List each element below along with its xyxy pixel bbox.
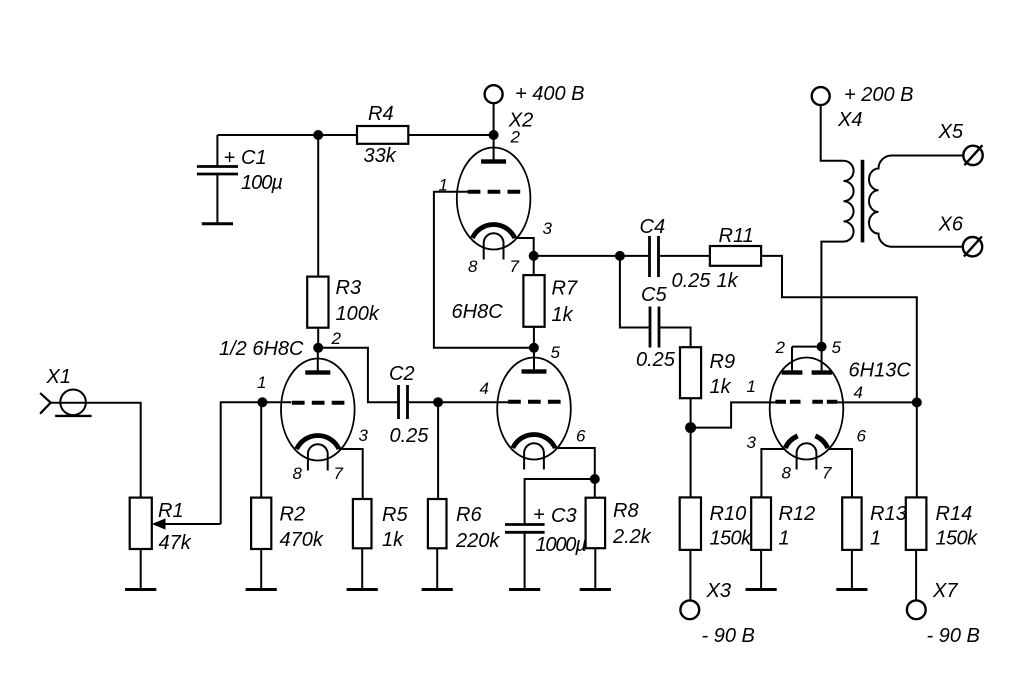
label + 400 B [515, 83, 585, 105]
wire primary bottom to V4 anodes [821, 242, 843, 347]
wire R8 to ground [594, 548, 596, 589]
svg-text:3: 3 [359, 426, 369, 445]
connector X4 terminal [812, 87, 830, 105]
svg-text:470k: 470k [280, 529, 324, 551]
label 6H13C [849, 360, 912, 382]
resistor R9 [680, 347, 701, 398]
label R4 [368, 103, 394, 125]
svg-text:6: 6 [857, 427, 867, 446]
svg-text:- 90 B: - 90 B [702, 625, 755, 647]
svg-text:R11: R11 [719, 225, 754, 247]
resistor R4 [357, 126, 408, 144]
pin 3 (V1) [359, 426, 369, 445]
wire X1 to R1 top [51, 403, 141, 498]
triode V3 anode lead [533, 348, 535, 371]
svg-text:2: 2 [331, 329, 342, 348]
pin 2 (tube V1) [331, 329, 342, 348]
transformer T1 secondary winding [869, 156, 892, 247]
pin 4 (V4) [854, 383, 863, 402]
label X4 [837, 109, 862, 131]
triode V4 envelope [770, 358, 844, 460]
label R5 [382, 504, 408, 526]
svg-text:X5: X5 [938, 121, 964, 143]
label - 90 B (X3) [702, 625, 755, 647]
node 1 junction [257, 397, 267, 407]
svg-text:R6: R6 [456, 504, 482, 526]
label R2 [280, 504, 306, 526]
wire V4 pin3 to R12 [761, 449, 785, 497]
wire R3 to node 2 [317, 328, 319, 348]
wire X2 stem [493, 103, 495, 135]
pin 5 (V3) [551, 343, 561, 362]
label 1/2 6H8C [219, 338, 304, 360]
svg-text:6H13C: 6H13C [849, 360, 912, 382]
wire X4 to primary [821, 105, 844, 161]
svg-text:150k: 150k [936, 528, 979, 550]
svg-text:X1: X1 [46, 366, 71, 388]
svg-text:3: 3 [747, 433, 757, 452]
wire R6 to ground [436, 548, 438, 589]
svg-text:100µ: 100µ [241, 172, 282, 194]
triode V2 heater [484, 233, 504, 259]
svg-text:2.2k: 2.2k [612, 526, 652, 548]
resistor R12 [751, 497, 771, 550]
connector X1 socket circle [60, 390, 86, 416]
wire node to R6 [437, 402, 439, 499]
node V3 anode junction [529, 343, 539, 353]
svg-text:2: 2 [510, 128, 521, 147]
pin 6 (V4) [857, 427, 867, 446]
triode V1 heater [308, 444, 328, 470]
pin 7 (V1) [334, 464, 344, 483]
svg-text:R7: R7 [552, 278, 578, 300]
svg-text:7: 7 [334, 464, 344, 483]
value 100k [336, 303, 380, 325]
svg-text:R8: R8 [613, 500, 639, 522]
svg-text:47k: 47k [159, 532, 192, 554]
pin 8 (V1) [293, 464, 303, 483]
wire wiper to node 1 [221, 402, 263, 524]
triode V4 cathode arcs [785, 436, 827, 448]
wire bias node to V4 grid [691, 402, 777, 427]
svg-text:1: 1 [870, 528, 881, 550]
label R3 [336, 277, 362, 299]
node bias junction (V4 grid1) [685, 422, 696, 433]
pin 7 (V2) [510, 257, 520, 276]
triode V4 heater [797, 443, 817, 469]
node junction rail/R3 [313, 130, 323, 140]
svg-text:6H8C: 6H8C [452, 301, 504, 323]
potentiometer R1 wiper arrow [152, 518, 221, 529]
wire R2 to ground [260, 549, 262, 590]
svg-text:R13: R13 [870, 503, 907, 525]
connector X3 terminal [680, 600, 699, 619]
wire V2 grid to V3 anode [434, 192, 534, 348]
wire C4 to R11 [659, 255, 710, 257]
svg-text:7: 7 [510, 257, 520, 276]
pin 1 (V2) [439, 176, 448, 195]
connector X6 terminal [963, 237, 982, 257]
value 0.25 (C4) [672, 270, 712, 292]
svg-text:100k: 100k [336, 303, 380, 325]
svg-text:5: 5 [832, 338, 842, 357]
connector X2 terminal [485, 85, 503, 103]
node 2 junction [313, 343, 323, 353]
capacitor C1 polarity + [224, 147, 236, 169]
svg-text:1k: 1k [552, 304, 574, 326]
svg-text:X3: X3 [706, 580, 731, 602]
triode V1 envelope [281, 359, 355, 461]
pin 3 (V2) [543, 219, 553, 238]
triode V2 cathode [472, 225, 514, 238]
svg-text:C5: C5 [641, 284, 667, 306]
label R10 [710, 503, 747, 525]
svg-text:7: 7 [822, 464, 832, 483]
triode V1 cathode [297, 436, 339, 449]
capacitor C4 plates [650, 236, 659, 277]
node X2/anode junction [489, 130, 499, 140]
value 220k [455, 530, 500, 552]
triode V4 anode leads and bridge [792, 347, 822, 371]
wire node to R7 [533, 256, 535, 275]
wire junction to R8 [594, 479, 596, 498]
value 150k (R10) [710, 528, 753, 550]
node junction C2/R6 [433, 397, 443, 407]
value 0.25 (C2) [390, 425, 430, 447]
label C2 [389, 363, 415, 385]
wire node1 to R2 [260, 402, 262, 497]
ground (R2) [246, 588, 277, 591]
value 1k (R9) [710, 376, 732, 398]
triode V1 anode plate [305, 370, 330, 374]
ground (R13) [836, 588, 867, 591]
potentiometer R1 body [130, 498, 152, 549]
svg-text:2: 2 [775, 338, 786, 357]
wire R10 to X3 [689, 550, 691, 601]
svg-text:1k: 1k [717, 270, 739, 292]
pin 7 (V4) [822, 464, 832, 483]
wire V4 grid to node [838, 401, 917, 403]
wire C5 branch [620, 256, 650, 328]
capacitor C2 plates [399, 385, 408, 419]
label R13 [870, 503, 907, 525]
pin 5 (V4) [832, 338, 842, 357]
resistor R10 [680, 497, 701, 550]
value 150k (R14) [936, 528, 979, 550]
label X2 [508, 110, 533, 132]
label C4 [640, 216, 666, 238]
svg-text:C2: C2 [389, 363, 415, 385]
resistor R11 [710, 246, 761, 266]
label X6 [938, 214, 964, 236]
resistor R6 [428, 499, 447, 548]
label C1 [241, 147, 267, 169]
ground (R6) [422, 588, 453, 591]
svg-text:0.25: 0.25 [672, 270, 712, 292]
svg-text:R5: R5 [382, 504, 408, 526]
svg-text:R10: R10 [710, 503, 747, 525]
svg-text:4: 4 [480, 379, 489, 398]
label X7 [932, 580, 958, 602]
capacitor C3 polarity + [533, 504, 545, 526]
svg-text:C4: C4 [640, 216, 666, 238]
resistor R13 [842, 497, 861, 550]
svg-text:0.25: 0.25 [636, 349, 676, 371]
label R1 [158, 500, 184, 522]
ground (C1) [202, 222, 233, 225]
wire node to R14 [916, 402, 918, 497]
wire C2 to node4 [408, 401, 439, 403]
triode V1 grid [292, 401, 345, 405]
capacitor C3 plates [505, 525, 545, 533]
wire R11 to V4 grid node [761, 256, 917, 403]
svg-text:R4: R4 [368, 103, 394, 125]
node junction C4/C5 [615, 251, 625, 261]
wire V2 cathode node to C4 [534, 255, 650, 257]
label R7 [552, 278, 578, 300]
label R14 [936, 503, 973, 525]
value 1 (R13) [870, 528, 881, 550]
value 33k [364, 145, 397, 167]
value 100µ [241, 172, 282, 194]
wire V1 pin3 to R5 [339, 449, 363, 499]
label R11 [719, 225, 754, 247]
value 1k (R5) [382, 529, 404, 551]
svg-text:0.25: 0.25 [390, 425, 430, 447]
svg-text:1000µ: 1000µ [536, 534, 587, 556]
svg-text:R9: R9 [710, 351, 736, 373]
node V4 grid/R14 junction [912, 397, 922, 407]
svg-text:150k: 150k [710, 528, 753, 550]
pin 2 (V4) [775, 338, 786, 357]
connector X5 terminal [963, 145, 982, 165]
triode V3 heater [524, 443, 544, 469]
pin 2 (tube V2) [510, 128, 521, 147]
svg-text:R3: R3 [336, 277, 362, 299]
ground (R5) [347, 588, 378, 591]
label C5 [641, 284, 667, 306]
node V2 cathode junction [529, 251, 539, 261]
triode V2 anode lead [493, 135, 495, 161]
pin 1 (V4) [747, 377, 756, 396]
triode V1 anode lead [317, 348, 319, 372]
resistor R8 [586, 498, 606, 549]
label X3 [706, 580, 731, 602]
wire R7 to V3 anode node [533, 327, 535, 348]
triode V2 envelope [457, 148, 531, 250]
svg-text:+ 200 B: + 200 B [844, 84, 914, 106]
triode V4 anode plate right [812, 370, 832, 374]
capacitor C1 plates [197, 167, 238, 175]
wire rail to R4 [318, 134, 357, 136]
svg-text:+ 400 B: + 400 B [515, 83, 585, 105]
node cathode junction V3 [590, 474, 600, 484]
svg-text:R12: R12 [779, 503, 816, 525]
wire C5 to R9 [659, 328, 691, 348]
pin 1 (V1) [257, 373, 266, 392]
wire V2 pin3 tap [515, 238, 534, 256]
triode V4 anode plate left [782, 370, 803, 374]
connector X1 plug chevron [40, 393, 51, 414]
ground (R8) [580, 588, 611, 591]
wire V4 pin6 to R13 [828, 449, 852, 497]
label 6H8C [452, 301, 504, 323]
pin 8 (V4) [782, 464, 792, 483]
wire R4 to X2 node [408, 134, 493, 136]
svg-text:5: 5 [551, 343, 561, 362]
svg-text:R2: R2 [280, 504, 306, 526]
wire R14 to X7 [915, 550, 917, 601]
triode V3 cathode [513, 435, 555, 448]
connector X7 terminal [907, 600, 926, 619]
value 470k [280, 529, 324, 551]
svg-text:33k: 33k [364, 145, 397, 167]
resistor R2 [251, 498, 271, 549]
svg-text:6: 6 [576, 427, 586, 446]
wire R13 to ground [851, 550, 853, 590]
wire R9 to bias node [690, 398, 692, 427]
svg-text:1k: 1k [710, 376, 732, 398]
svg-text:X4: X4 [837, 109, 862, 131]
value 1k (R7) [552, 304, 574, 326]
svg-text:- 90 B: - 90 B [927, 625, 980, 647]
wire junction to R3 [317, 135, 319, 277]
wire node1 to V1 grid [262, 401, 291, 403]
wire node to V3 grid [438, 401, 508, 403]
triode V4 grid [775, 400, 838, 404]
pin 8 (V2) [468, 257, 478, 276]
svg-text:R14: R14 [936, 503, 973, 525]
wire secondary top to X5 [892, 155, 964, 157]
triode V2 grid [468, 190, 521, 194]
svg-text:8: 8 [782, 464, 792, 483]
wire R5 to ground [361, 548, 363, 589]
triode V3 envelope [497, 358, 571, 460]
resistor R3 [307, 277, 328, 328]
wire B+ rail from C1 to R4 junction [217, 134, 318, 136]
triode V2 anode plate [481, 159, 506, 163]
svg-text:1/2 6H8C: 1/2 6H8C [219, 338, 304, 360]
svg-text:C3: C3 [551, 505, 577, 527]
label R6 [456, 504, 482, 526]
svg-text:4: 4 [854, 383, 863, 402]
svg-text:1: 1 [257, 373, 266, 392]
svg-text:R1: R1 [158, 500, 184, 522]
svg-text:+: + [533, 504, 545, 526]
label - 90 B (X7) [927, 625, 980, 647]
capacitor C5 plates [650, 307, 659, 348]
transformer T1 core [861, 160, 865, 243]
wire R12 to ground [760, 550, 762, 590]
wire R1 to ground [140, 549, 142, 590]
svg-text:C1: C1 [241, 147, 267, 169]
svg-text:1: 1 [779, 528, 790, 550]
resistor R7 [523, 275, 544, 327]
value 1k (R11) [717, 270, 739, 292]
capacitor C1 bottom lead [216, 174, 218, 224]
svg-text:220k: 220k [455, 530, 500, 552]
wire C3 to ground [524, 532, 526, 589]
wire secondary bottom to X6 [892, 246, 963, 248]
value 47k [159, 532, 192, 554]
wire bias node to R10 [690, 428, 692, 498]
node anode bridge junction [817, 342, 827, 352]
connector X1 shell line [55, 415, 92, 417]
svg-text:X6: X6 [938, 214, 964, 236]
label R8 [613, 500, 639, 522]
ground (R1) [125, 588, 156, 591]
pin 6 (V3) [576, 427, 586, 446]
value 1 (R12) [779, 528, 790, 550]
label + 200 B [844, 84, 914, 106]
pin 4 (V3) [480, 379, 489, 398]
capacitor C1 top lead [216, 135, 218, 167]
triode V3 anode plate [522, 369, 547, 373]
svg-text:1: 1 [747, 377, 756, 396]
label X1 [46, 366, 71, 388]
wire V3 pin6 tap [555, 448, 595, 479]
label R9 [710, 351, 736, 373]
svg-text:8: 8 [293, 464, 303, 483]
value 2.2k [612, 526, 652, 548]
value 1000µ [536, 534, 587, 556]
svg-text:3: 3 [543, 219, 553, 238]
triode V3 grid [508, 400, 560, 404]
label R12 [779, 503, 816, 525]
ground (C3) [509, 588, 540, 591]
ground (R12) [746, 588, 777, 591]
svg-text:X7: X7 [932, 580, 958, 602]
svg-text:1k: 1k [382, 529, 404, 551]
resistor R14 [906, 497, 927, 550]
svg-text:8: 8 [468, 257, 478, 276]
pin 3 (V4) [747, 433, 757, 452]
resistor R5 [353, 499, 372, 548]
value 0.25 (C5) [636, 349, 676, 371]
svg-text:+: + [224, 147, 236, 169]
label C3 [551, 505, 577, 527]
wire junction to C3 [525, 479, 595, 525]
transformer T1 primary winding [844, 161, 854, 242]
wire node2 to C2 [318, 348, 398, 402]
label X5 [938, 121, 964, 143]
